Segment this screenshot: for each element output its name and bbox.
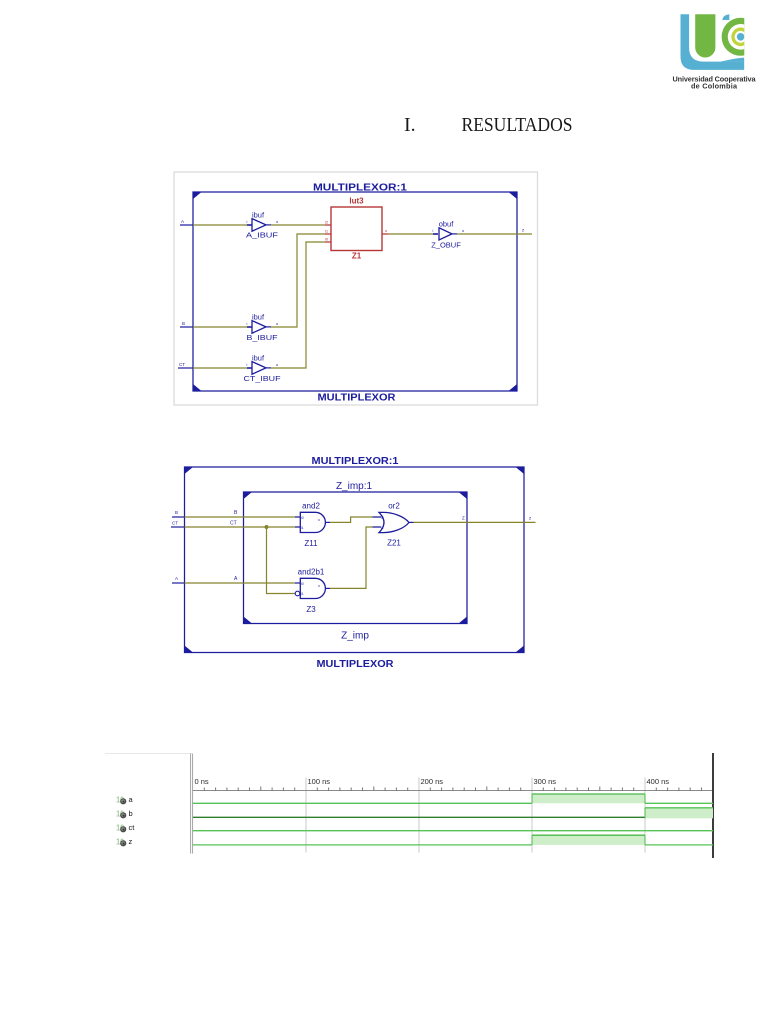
right border xyxy=(712,753,714,858)
svg-text:i: i xyxy=(247,321,248,326)
lut3 Z1 box xyxy=(331,207,382,251)
corner marks inner xyxy=(244,492,468,624)
obuf Z_OBUF xyxy=(433,233,438,235)
signal icon ct xyxy=(116,824,126,833)
wire ct xyxy=(171,526,185,528)
logo lime ring xyxy=(731,28,750,47)
wire B_IBUF to lut xyxy=(271,234,325,327)
gridline 300ns xyxy=(531,778,533,853)
svg-text:Z_imp:1: Z_imp:1 xyxy=(336,481,373,492)
panel top edge xyxy=(105,753,192,755)
junction ct xyxy=(265,525,269,529)
svg-text:A_IBUF: A_IBUF xyxy=(246,231,279,240)
svg-text:MULTIPLEXOR:1: MULTIPLEXOR:1 xyxy=(312,456,399,467)
svg-text:and2b1: and2b1 xyxy=(298,568,325,577)
svg-text:i: i xyxy=(247,362,248,367)
wire b xyxy=(172,516,185,518)
svg-text:CT: CT xyxy=(230,521,237,527)
frame xyxy=(174,172,538,405)
wire B input xyxy=(180,326,193,328)
signal icon b xyxy=(116,810,126,819)
svg-text:CT_IBUF: CT_IBUF xyxy=(244,374,281,383)
signal icon z xyxy=(116,838,126,847)
svg-text:300 ns: 300 ns xyxy=(534,777,557,786)
svg-text:Z21: Z21 xyxy=(387,539,401,548)
svg-text:MULTIPLEXOR: MULTIPLEXOR xyxy=(317,659,395,670)
svg-text:ibuf: ibuf xyxy=(252,354,265,363)
logo green u xyxy=(695,14,715,57)
svg-text:i0: i0 xyxy=(301,582,304,586)
wire or2 out (Z) xyxy=(414,521,536,523)
svg-text:obuf: obuf xyxy=(439,220,455,229)
svg-text:ibuf: ibuf xyxy=(252,313,265,322)
ruler line xyxy=(193,790,713,792)
svg-text:and2: and2 xyxy=(302,502,320,511)
svg-text:o: o xyxy=(318,518,320,522)
lut3 Z1 pins xyxy=(325,225,388,242)
svg-text:B: B xyxy=(182,321,185,326)
svg-text:i0: i0 xyxy=(301,516,304,520)
svg-text:Z11: Z11 xyxy=(304,539,318,548)
svg-text:Z_imp: Z_imp xyxy=(341,631,369,642)
module box MULTIPLEXOR xyxy=(193,192,517,391)
svg-text:CT: CT xyxy=(179,362,185,367)
svg-text:B_IBUF: B_IBUF xyxy=(247,333,278,342)
svg-text:0 ns: 0 ns xyxy=(195,777,209,786)
logo blue right sweep xyxy=(720,58,745,62)
logo blue wedge xyxy=(722,14,729,20)
svg-text:i: i xyxy=(433,228,434,233)
corner marks outer xyxy=(185,467,525,653)
svg-text:CT: CT xyxy=(172,521,178,526)
svg-text:Z3: Z3 xyxy=(306,605,316,614)
svg-text:lut3: lut3 xyxy=(349,197,364,206)
wire A_IBUF to lut xyxy=(271,224,325,226)
svg-text:B: B xyxy=(175,510,178,515)
wire ct down to and2b1 xyxy=(267,527,296,594)
gridline 100ns xyxy=(305,778,307,853)
svg-text:i0: i0 xyxy=(381,516,384,520)
wire Z output xyxy=(457,233,532,235)
logo blue dot xyxy=(737,33,745,41)
svg-text:a: a xyxy=(129,795,134,804)
wire A input xyxy=(180,224,193,226)
svg-text:RESULTADOS: RESULTADOS xyxy=(462,114,573,136)
ruler labels xyxy=(195,777,670,786)
separator xyxy=(191,754,193,854)
wave a xyxy=(532,794,645,803)
and2b1 Z3 xyxy=(295,582,300,584)
svg-text:MULTIPLEXOR: MULTIPLEXOR xyxy=(318,393,397,404)
svg-text:200 ns: 200 ns xyxy=(421,777,444,786)
ruler minor ticks xyxy=(204,787,713,791)
svg-text:i1: i1 xyxy=(301,592,304,596)
logo blue U xyxy=(681,14,745,70)
ibuf CT_IBUF xyxy=(247,367,252,369)
svg-text:i: i xyxy=(247,219,248,224)
module box Z_imp (inner) xyxy=(244,492,468,624)
svg-text:Z: Z xyxy=(462,516,465,521)
svg-text:z: z xyxy=(129,837,133,846)
wire lut to obuf xyxy=(388,233,433,235)
logo green c ring xyxy=(722,18,760,56)
or2 Z21 xyxy=(373,517,382,527)
logo white gap ring xyxy=(719,15,762,58)
svg-text:de Colombia: de Colombia xyxy=(691,81,738,90)
svg-text:A: A xyxy=(175,576,178,581)
wave ct xyxy=(193,830,713,832)
svg-text:I.: I. xyxy=(404,114,416,136)
signal icon a xyxy=(116,796,126,805)
ibuf A_IBUF xyxy=(247,224,252,226)
inverter bubble xyxy=(295,591,300,596)
module box MULTIPLEXOR (outer) xyxy=(185,467,525,653)
svg-text:i1: i1 xyxy=(301,526,304,530)
svg-text:or2: or2 xyxy=(388,502,400,511)
svg-text:ibuf: ibuf xyxy=(252,211,265,220)
svg-text:100 ns: 100 ns xyxy=(308,777,331,786)
svg-text:A: A xyxy=(181,219,184,224)
wave z xyxy=(532,835,645,845)
svg-text:z: z xyxy=(529,516,532,521)
ibuf B_IBUF xyxy=(247,326,252,328)
svg-text:Z1: Z1 xyxy=(352,252,362,261)
svg-text:400 ns: 400 ns xyxy=(647,777,670,786)
svg-text:MULTIPLEXOR:1: MULTIPLEXOR:1 xyxy=(313,182,408,193)
gridline 200ns xyxy=(418,778,420,853)
svg-text:b: b xyxy=(129,809,133,818)
wire CT_IBUF to lut xyxy=(271,242,325,368)
wire and2b1 out to or2 xyxy=(330,527,373,588)
corner marks xyxy=(193,192,517,391)
wave b xyxy=(645,808,713,819)
wire a xyxy=(172,582,185,584)
and2 Z11 xyxy=(295,517,300,527)
svg-text:i1: i1 xyxy=(381,526,384,530)
wire CT input xyxy=(178,367,193,369)
gridline 400ns xyxy=(644,778,646,853)
svg-text:Z_OBUF: Z_OBUF xyxy=(431,241,461,250)
svg-text:o: o xyxy=(318,584,320,588)
wire and2 out to or2 xyxy=(330,517,373,522)
svg-text:B: B xyxy=(234,510,238,516)
svg-text:A: A xyxy=(234,576,238,582)
svg-text:ct: ct xyxy=(129,823,136,832)
